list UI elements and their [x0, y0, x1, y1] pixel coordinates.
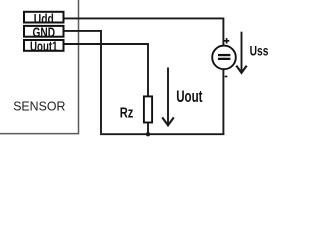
wire bottom rail — [100, 133, 224, 135]
minus sign — [225, 76, 228, 78]
wire resistor bottom to rail — [147, 123, 149, 134]
voltage arrow Uout — [162, 68, 174, 126]
svg-text:Uout1: Uout1 — [30, 39, 58, 54]
svg-text:GND: GND — [33, 25, 56, 40]
plus sign — [224, 38, 229, 43]
sensor block outline (cropped box, right edge + bottom edge) — [0, 0, 79, 134]
pin box Uout1 — [24, 40, 64, 51]
svg-text:Rz: Rz — [120, 106, 134, 122]
wire Udd to source plus terminal — [65, 18, 224, 45]
wire GND down to bottom rail — [65, 31, 102, 133]
svg-text:Uout: Uout — [176, 88, 203, 106]
voltage source U1 circle — [212, 46, 236, 70]
wire Uout1 to resistor top — [65, 44, 149, 96]
voltage source DC bars — [218, 54, 230, 60]
pin box GND — [24, 26, 64, 37]
resistor Rz body — [144, 96, 152, 122]
svg-text:Uss: Uss — [250, 44, 268, 60]
pin box Udd — [24, 12, 64, 23]
svg-text:SENSOR: SENSOR — [13, 99, 65, 114]
voltage arrow Uss — [236, 32, 246, 73]
wire source bottom to rail — [222, 69, 224, 134]
junction node dot — [146, 132, 150, 136]
